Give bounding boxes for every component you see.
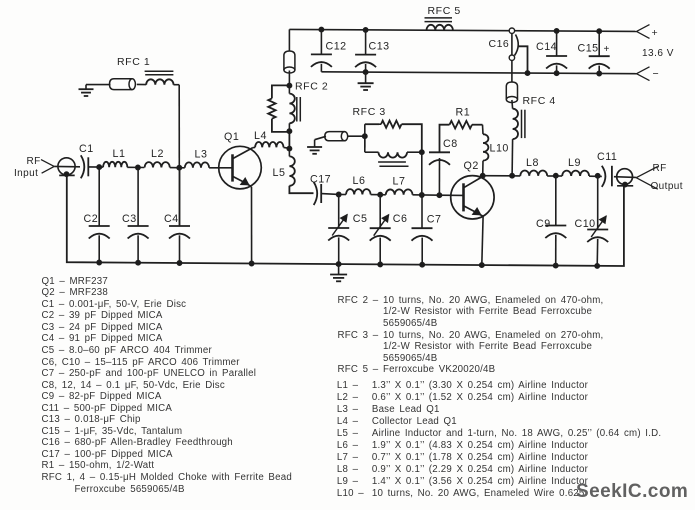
svg-text:L2: L2 (151, 148, 164, 160)
svg-text:L4: L4 (254, 130, 267, 142)
svg-text:RF: RF (27, 156, 41, 167)
svg-text:C11: C11 (597, 151, 617, 163)
svg-text:C13: C13 (369, 41, 390, 53)
svg-text:C6: C6 (393, 213, 408, 225)
svg-text:13.6 V: 13.6 V (642, 48, 674, 59)
svg-text:L7: L7 (393, 175, 406, 187)
svg-text:C16: C16 (489, 38, 510, 50)
svg-text:C4: C4 (164, 213, 179, 225)
svg-text:C7: C7 (427, 214, 442, 226)
svg-text:−: − (653, 68, 659, 80)
svg-text:L3: L3 (195, 148, 208, 160)
svg-text:C14: C14 (536, 41, 557, 53)
svg-text:L9: L9 (568, 157, 581, 169)
svg-text:L5: L5 (273, 167, 286, 179)
svg-text:C9: C9 (536, 218, 551, 230)
svg-text:C12: C12 (326, 40, 347, 52)
svg-text:C1: C1 (79, 143, 94, 155)
svg-text:L8: L8 (526, 157, 539, 169)
svg-text:C17: C17 (310, 174, 331, 186)
svg-text:L1: L1 (113, 148, 126, 160)
svg-text:L10: L10 (490, 143, 509, 155)
svg-text:C8: C8 (443, 138, 458, 150)
svg-text:R1: R1 (456, 106, 471, 118)
svg-text:Output: Output (651, 181, 683, 192)
svg-text:C10: C10 (575, 218, 596, 230)
svg-text:C2: C2 (84, 213, 99, 225)
svg-text:+: + (652, 27, 658, 39)
svg-text:RF: RF (653, 163, 667, 174)
svg-text:Q2: Q2 (464, 160, 479, 172)
svg-text:RFC 5: RFC 5 (428, 5, 461, 17)
svg-text:C3: C3 (122, 213, 137, 225)
svg-text:Input: Input (14, 168, 38, 179)
svg-text:RFC 4: RFC 4 (523, 95, 556, 107)
svg-text:Q1: Q1 (224, 131, 239, 143)
svg-text:C15: C15 (578, 42, 599, 54)
svg-text:+: + (604, 44, 610, 55)
svg-text:L6: L6 (353, 175, 366, 187)
svg-text:RFC 1: RFC 1 (117, 56, 150, 68)
svg-text:RFC 3: RFC 3 (353, 106, 386, 118)
svg-text:C5: C5 (353, 213, 368, 225)
svg-text:RFC 2: RFC 2 (295, 81, 328, 93)
